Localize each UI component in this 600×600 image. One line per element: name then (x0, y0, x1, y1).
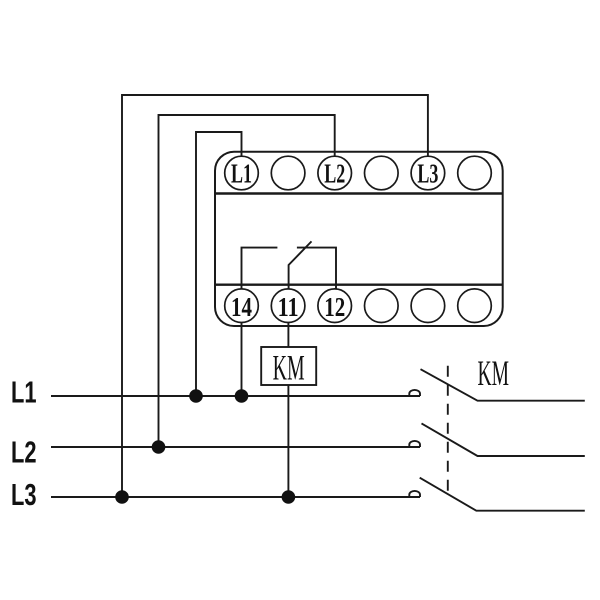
coil KM box (261, 347, 316, 385)
phase L2 line (51, 446, 420, 448)
svg-text:L1: L1 (11, 376, 37, 410)
internal contact: NO side from terminal 14 (242, 248, 278, 290)
svg-text:12: 12 (324, 292, 345, 322)
top terminal circle 6 (unlabelled) (458, 156, 492, 190)
svg-text:L3: L3 (417, 159, 438, 189)
svg-text:L3: L3 (11, 478, 37, 512)
device internal separator line (bottom) (215, 284, 503, 286)
relay device body U1 (215, 152, 503, 326)
internal contact: NC side from terminal 12 (297, 248, 336, 290)
wire: terminal 11 down to KM coil (287, 322, 289, 347)
svg-text:L2: L2 (324, 159, 345, 189)
wire: KM coil down to phase L3 (287, 385, 289, 497)
bottom terminal circle 5 (unlabelled) (411, 289, 445, 323)
wire: L1 terminal to phase L1 (up, left, down) (196, 132, 242, 396)
junction dot on L1 at wire from terminal L1 (189, 389, 203, 403)
phase L3 line (51, 496, 420, 498)
junction dot on L2 at wire from terminal L2 (152, 440, 166, 454)
contactor KM pole 2 fixed contact (semicircle) (409, 441, 420, 447)
junction dot on L1 at wire from terminal 14 (235, 389, 249, 403)
svg-text:KM: KM (273, 348, 305, 388)
wire: L2 terminal to phase L2 (up, left, down) (159, 115, 335, 447)
svg-text:L2: L2 (11, 436, 37, 470)
contactor mechanical linkage (dashed) (447, 366, 449, 495)
bottom terminal circle 4 (unlabelled) (365, 289, 399, 323)
device internal separator line (top) (215, 192, 503, 194)
contactor KM pole 1 blade and outgoing line (421, 369, 585, 401)
top terminal circle 4 (unlabelled) (365, 156, 399, 190)
terminal 12 circle (318, 289, 352, 323)
svg-text:KM: KM (478, 353, 510, 393)
wire: terminal 14 down to phase L1 (241, 322, 243, 396)
bottom terminal circle 6 (unlabelled) (458, 289, 492, 323)
svg-text:L1: L1 (231, 159, 252, 189)
internal contact: common blade from terminal 11 (289, 241, 312, 289)
terminal L1 circle (225, 156, 259, 190)
contactor KM pole 2 blade and outgoing line (422, 423, 585, 456)
junction dot on L3 at KM coil wire (282, 490, 296, 504)
contactor KM pole 3 fixed contact (semicircle) (409, 491, 420, 497)
terminal L3 circle (411, 156, 445, 190)
contactor KM pole 1 fixed contact (semicircle) (409, 390, 420, 396)
phase L1 line (51, 395, 420, 397)
terminal 14 circle (225, 289, 259, 323)
terminal L2 circle (318, 156, 352, 190)
top terminal circle 2 (unlabelled) (271, 156, 305, 190)
contactor KM pole 3 blade and outgoing line (420, 478, 585, 511)
svg-text:11: 11 (278, 292, 299, 322)
junction dot on L3 at wire from terminal L3 (115, 490, 129, 504)
wire: L3 terminal to phase L3 (up, left, down) (122, 95, 428, 497)
terminal 11 circle (271, 289, 305, 323)
svg-text:14: 14 (231, 292, 252, 322)
